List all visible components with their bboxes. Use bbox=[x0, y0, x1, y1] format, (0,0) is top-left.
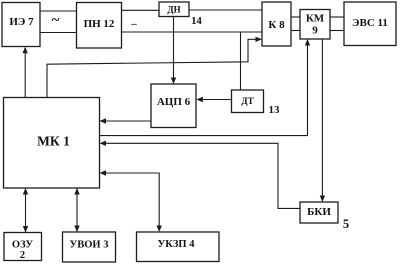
arrowhead into UKZP4 from MK1 bbox=[157, 226, 162, 233]
wire K8-KM9 lower bbox=[291, 30, 300, 32]
block UVOI3 bbox=[63, 232, 116, 262]
svg-text:ДН: ДН bbox=[167, 5, 180, 15]
wire DN down to ACP6 bbox=[173, 17, 175, 84]
wire DT to ACP6 bbox=[198, 99, 232, 101]
wire MK1 up to IE7 bbox=[24, 48, 26, 98]
wire KM9-EVS11 upper bbox=[330, 16, 344, 18]
wire K8-KM9 upper bbox=[291, 16, 300, 18]
wire MK1-UKZP4 path bbox=[101, 173, 159, 231]
arrowhead into KM9 from MK1 bbox=[305, 39, 310, 46]
block UKZP4 bbox=[137, 232, 220, 262]
svg-text:УВОИ 3: УВОИ 3 bbox=[70, 240, 109, 251]
wire BKI to MK1 path bbox=[101, 143, 300, 208]
arrowhead into MK1 from UVOI3 bbox=[74, 188, 79, 195]
arrowhead into IE7 from MK1 bbox=[23, 47, 28, 54]
block BKI5 bbox=[300, 202, 338, 223]
svg-text:УКЗП 4: УКЗП 4 bbox=[158, 239, 196, 250]
svg-text:14: 14 bbox=[191, 16, 202, 27]
wire AC bus lower IE7-PN12 bbox=[40, 32, 77, 34]
block DT bbox=[232, 90, 264, 113]
block IE7 bbox=[2, 3, 40, 47]
arrowhead into OZU2 from MK1 bbox=[23, 226, 28, 233]
arrowhead into UVOI3 from MK1 bbox=[74, 226, 79, 233]
svg-text:АЦП 6: АЦП 6 bbox=[157, 96, 191, 108]
svg-text:МК 1: МК 1 bbox=[37, 134, 70, 149]
block DN bbox=[159, 2, 189, 17]
svg-text:–: – bbox=[130, 18, 137, 30]
svg-text:ПН 12: ПН 12 bbox=[84, 18, 115, 30]
wire bus junction down to DT bbox=[240, 32, 242, 90]
wire DC bus upper PN12-DN bbox=[122, 9, 160, 11]
wire MK1 to K8 path bbox=[47, 39, 261, 97]
svg-text:КМ: КМ bbox=[306, 13, 325, 25]
svg-text:ДТ: ДТ bbox=[241, 96, 253, 106]
arrowhead into MK1 from UKZP4 bbox=[100, 170, 107, 175]
svg-text:13: 13 bbox=[269, 104, 281, 116]
arrowhead into MK1 from BKI bbox=[100, 141, 107, 146]
arrowhead into BKI from KM9 bbox=[320, 196, 325, 203]
arrowhead into ACP6 top from DN bbox=[171, 78, 176, 85]
svg-text:2: 2 bbox=[20, 250, 25, 261]
block MK1 bbox=[4, 98, 100, 189]
block KM9 bbox=[300, 10, 330, 40]
block OZU2 bbox=[4, 233, 42, 261]
svg-text:ИЭ 7: ИЭ 7 bbox=[9, 16, 34, 28]
arrowhead into K8 from MK1 bbox=[256, 37, 263, 42]
wire MK1-OZU2 bbox=[25, 188, 27, 233]
block ACP6 bbox=[151, 84, 196, 128]
block K8 bbox=[262, 2, 291, 46]
block PN12 bbox=[77, 3, 122, 49]
wire KM9 down to BKI bbox=[321, 39, 323, 201]
arrowhead into MK1 from ACP6 bbox=[100, 118, 107, 123]
svg-text:9: 9 bbox=[312, 25, 318, 37]
svg-text:ОЗУ: ОЗУ bbox=[12, 240, 33, 251]
svg-text:К 8: К 8 bbox=[268, 19, 285, 31]
svg-text:~: ~ bbox=[52, 13, 60, 29]
wire DC bus lower PN12-K8 bbox=[122, 31, 263, 33]
block EVS11 bbox=[344, 2, 396, 46]
wire DC bus upper DN-K8 bbox=[189, 9, 262, 11]
arrowhead into MK1 from OZU2 bbox=[23, 188, 28, 195]
wire MK1 to KM9 path bbox=[100, 41, 308, 136]
svg-text:БКИ: БКИ bbox=[307, 206, 331, 218]
wire ACP6 to MK1 bbox=[101, 120, 151, 122]
arrowhead into ACP6 right from DT bbox=[196, 97, 203, 102]
wire MK1-UVOI3 bbox=[76, 188, 78, 232]
svg-text:ЭВС 11: ЭВС 11 bbox=[352, 17, 388, 29]
wire AC bus upper IE7-PN12 bbox=[40, 10, 77, 12]
wire KM9-EVS11 lower bbox=[330, 30, 344, 32]
svg-text:5: 5 bbox=[343, 217, 349, 231]
